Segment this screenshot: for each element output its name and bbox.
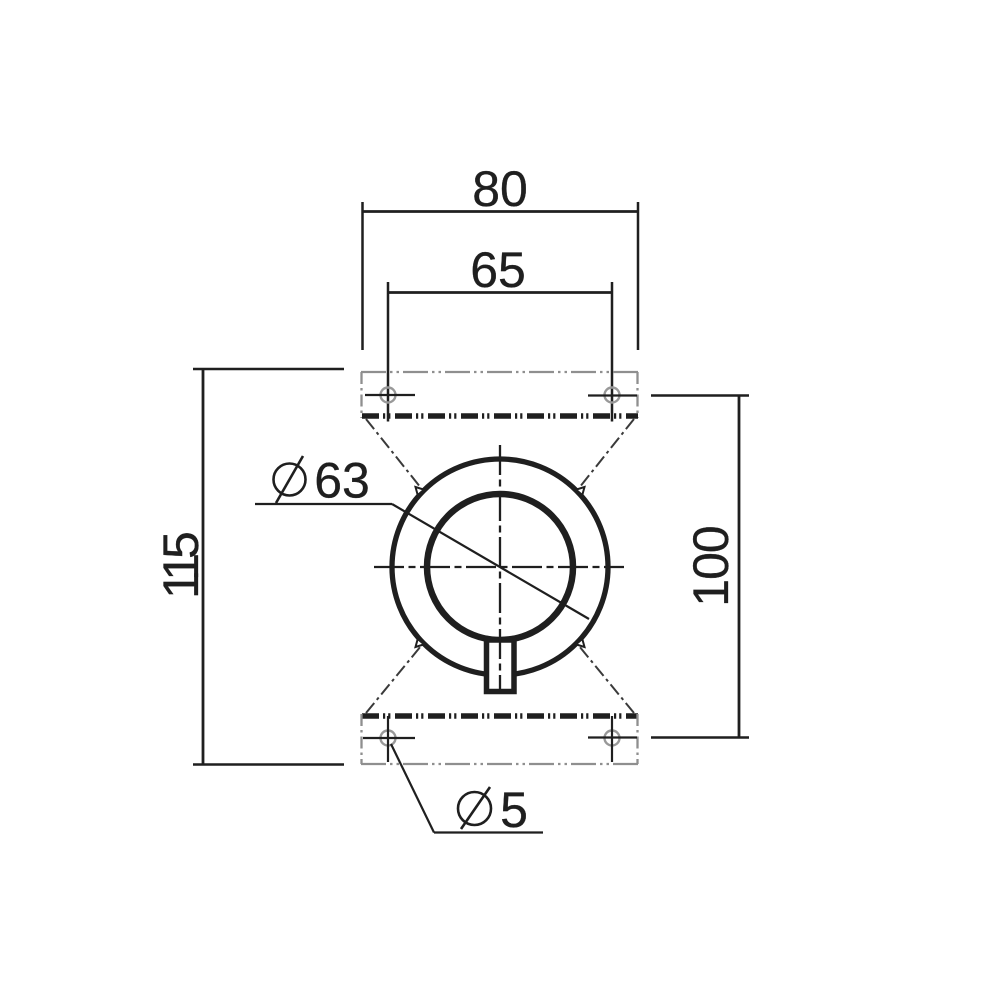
svg-text:115: 115 bbox=[153, 533, 209, 599]
svg-text:5: 5 bbox=[500, 782, 528, 838]
svg-text:63: 63 bbox=[314, 453, 370, 509]
svg-text:80: 80 bbox=[472, 161, 528, 217]
svg-text:100: 100 bbox=[683, 526, 739, 606]
svg-text:65: 65 bbox=[470, 242, 526, 298]
